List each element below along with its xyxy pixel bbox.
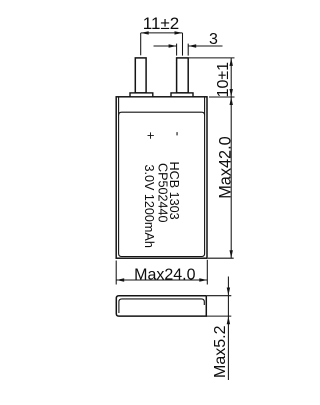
arrow down at body bottom (Max42.0) [230,250,233,258]
svg-text:3.0V 1200mAh: 3.0V 1200mAh [142,165,156,248]
side view outer body [116,296,206,316]
extension line tab top [189,57,235,59]
dimension line 3 right segment [188,45,222,47]
dimension line 3 left segment [154,45,177,47]
arrow right of 11±2 [175,31,183,34]
extension line right tab centre [182,33,184,56]
svg-text:Max24.0: Max24.0 [134,266,195,283]
extension line body bottom right [208,257,234,259]
extension line tab right edge [187,44,189,56]
right terminal tab [177,58,189,93]
svg-text:CP502440: CP502440 [156,163,170,223]
svg-text:Max5.2: Max5.2 [212,325,229,378]
battery inner pouch right edge [204,98,206,254]
extension line left tab centre [140,33,142,55]
dimension line 10±1 [230,58,232,97]
dimension line Max5.2 upper [227,277,229,296]
arrow down at side view top [227,288,230,296]
battery top seal line [119,112,205,115]
extension line tab left edge [176,44,178,56]
extension line body bottom right vertical [206,260,208,285]
dimension line Max42.0 [230,97,232,258]
arrow down at body top [230,89,233,97]
svg-text:11±2: 11±2 [143,14,179,33]
arrow pointing left at tab right edge [188,44,196,47]
arrow left of 11±2 [141,31,149,34]
svg-text:10±1: 10±1 [215,62,232,98]
side view inner seal line [119,299,204,313]
arrow up at tab top [230,58,233,66]
svg-text:+: + [143,132,158,140]
arrow up at side view bottom [227,316,230,324]
battery outer body (front view) [116,97,207,258]
battery inner pouch bottom edge [119,254,205,257]
arrow up at body top (Max42.0) [230,97,233,105]
left tab foot [130,93,153,97]
arrow pointing right at tab left edge [169,44,177,47]
extension line side view top [206,295,231,297]
arrow right (Max24.0) [199,278,207,281]
dimension line Max5.2 lower [227,316,229,380]
dimension line Max24.0 [116,279,207,281]
battery inner pouch left edge [118,98,120,254]
svg-text:-: - [171,132,186,137]
extension line body top right [209,96,235,98]
extension line body bottom left [115,261,117,285]
right tab foot [171,93,193,97]
extension line side view bottom [206,315,231,317]
arrow left (Max24.0) [116,278,124,281]
left terminal tab [135,58,146,93]
dimension line 11±2 [141,32,183,34]
dimension line Max5.2 middle [227,296,229,316]
